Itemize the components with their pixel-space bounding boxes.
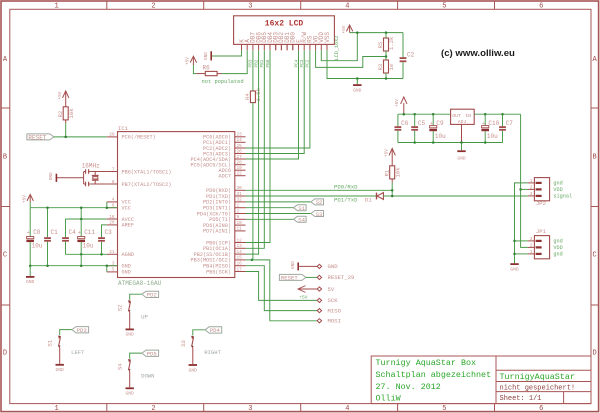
wire LCD DB5 to IC pin13 — [246, 50, 265, 248]
ground symbol JP bus — [510, 263, 518, 265]
IC1 pin 10 PD6(AIN0) — [235, 224, 246, 226]
svg-text:C3: C3 — [105, 229, 113, 236]
resistor R4 — [250, 91, 255, 103]
svg-text:12: 12 — [237, 238, 243, 243]
svg-text:16x2 LCD: 16x2 LCD — [265, 20, 304, 29]
svg-text:S1: S1 — [47, 339, 54, 346]
supply +5V arrow on regulator output — [403, 103, 405, 114]
capacitor C1 — [47, 208, 49, 238]
svg-text:PD0/RxD: PD0/RxD — [334, 184, 358, 191]
svg-text:MISO: MISO — [328, 307, 342, 314]
svg-text:C7: C7 — [506, 120, 514, 127]
wire R4 to IC pin15 node — [252, 103, 254, 260]
wire SCK from pin17 — [246, 272, 318, 301]
svg-text:PB1: PB1 — [260, 59, 265, 67]
svg-text:2: 2 — [530, 243, 533, 248]
wire R6 to LCD A — [222, 50, 248, 73]
svg-text:1: 1 — [54, 405, 58, 413]
svg-text:1: 1 — [530, 179, 533, 184]
svg-text:LEFT: LEFT — [71, 349, 85, 356]
svg-text:PD1/TxD: PD1/TxD — [334, 197, 358, 204]
svg-text:C11: C11 — [84, 229, 95, 236]
svg-text:17: 17 — [237, 267, 243, 272]
diode D1 — [376, 193, 378, 200]
switch S2 UP — [130, 294, 142, 300]
IC1 pin 19 ADC6 — [235, 169, 246, 171]
wire LCD RS to IC pin25 — [246, 50, 310, 148]
svg-text:DOWN: DOWN — [141, 372, 154, 379]
supply +5V arrow above R1 — [391, 150, 393, 157]
IC1 pin 29 PC6(/RESET) — [107, 136, 118, 138]
svg-text:R3: R3 — [377, 64, 384, 71]
supply +5V arrow above R2 — [65, 92, 67, 99]
IC1 pin 32 PD2(INT0) — [235, 201, 246, 203]
svg-text:PC3: PC3 — [300, 59, 305, 67]
svg-text:+: + — [482, 121, 485, 127]
svg-text:2: 2 — [151, 405, 155, 413]
wire LCD DB4 to IC pin12 — [246, 50, 271, 242]
resistor R6 — [196, 73, 205, 75]
wire JP1 pin1 gnd — [515, 253, 528, 255]
svg-text:VDD: VDD — [553, 245, 562, 251]
svg-text:28: 28 — [237, 161, 243, 166]
svg-text:GND: GND — [126, 391, 135, 397]
wire JP2 gnd to JP1 gnd bus — [515, 183, 528, 263]
svg-text:D: D — [3, 350, 7, 358]
stub LCD DB2 — [280, 44, 282, 50]
AREF line — [102, 224, 107, 226]
node R5/R3 junction — [385, 55, 388, 58]
svg-text:GND: GND — [49, 172, 54, 180]
svg-text:PD2: PD2 — [147, 292, 157, 299]
wire LCD VSS to GND rail — [327, 50, 357, 78]
svg-text:10u: 10u — [487, 133, 498, 140]
svg-text:C8: C8 — [33, 229, 41, 236]
svg-text:9: 9 — [237, 215, 240, 220]
svg-text:MOSI: MOSI — [328, 318, 341, 325]
svg-text:PB5(SCK): PB5(SCK) — [206, 269, 231, 275]
wire IC pin32 to S2 flag — [246, 201, 311, 203]
wire TxD to JP2 signal — [392, 195, 528, 197]
capacitor C7 — [502, 114, 504, 126]
AVCC line — [66, 218, 107, 220]
svg-text:11: 11 — [237, 227, 243, 232]
svg-text:S2: S2 — [117, 304, 124, 311]
ground symbol under divider — [356, 79, 358, 85]
svg-text:PB7(XTAL2/TOSC2): PB7(XTAL2/TOSC2) — [122, 182, 172, 188]
svg-text:18: 18 — [109, 215, 115, 220]
stub LCD DB1 — [286, 44, 288, 50]
IC1 pin 30 PD0(RXD) — [235, 189, 246, 191]
svg-text:gnd: gnd — [553, 181, 562, 187]
IC1 pin 24 PC1(ADC1) — [235, 141, 246, 143]
svg-text:PD7(AIN1): PD7(AIN1) — [203, 229, 231, 235]
svg-text:PC4: PC4 — [294, 59, 299, 67]
svg-text:1: 1 — [530, 250, 533, 255]
IC1 pin 3 GND — [107, 265, 118, 267]
svg-text:14: 14 — [237, 250, 243, 255]
svg-text:GND: GND — [26, 279, 35, 285]
wire RESET flag to IC pin29 — [54, 136, 107, 138]
IC U1 ATMEGA8 body — [118, 132, 235, 278]
svg-text:JP2: JP2 — [536, 200, 546, 207]
wire LCD E to IC pin27 — [246, 50, 299, 159]
svg-text:signal: signal — [553, 194, 572, 200]
switch S4 DOWN — [130, 353, 142, 359]
svg-text:10: 10 — [237, 221, 243, 226]
svg-text:+5V: +5V — [395, 99, 400, 107]
resistor R5 — [385, 33, 387, 38]
GND rail under divider — [327, 78, 403, 80]
wire RxD TxD tie — [391, 190, 393, 196]
resistor R2 — [65, 99, 67, 107]
svg-text:26: 26 — [237, 149, 243, 154]
svg-text:D: D — [592, 350, 596, 358]
svg-text:S4: S4 — [117, 363, 124, 370]
IC1 pin 31 PD1(TXD) — [235, 195, 246, 197]
supply +5V arrow left bank — [29, 196, 31, 203]
wire MISO from pin16 — [246, 266, 318, 311]
svg-text:3: 3 — [248, 405, 252, 413]
svg-text:AREF: AREF — [122, 223, 134, 229]
svg-text:GND: GND — [122, 264, 131, 270]
svg-text:R2: R2 — [57, 111, 64, 118]
svg-text:D1: D1 — [365, 197, 372, 204]
svg-text:S3: S3 — [180, 340, 187, 347]
stub LCD DB3 — [275, 44, 277, 50]
svg-text:RESET_29: RESET_29 — [328, 274, 355, 281]
svg-text:gnd: gnd — [553, 239, 562, 245]
svg-text:PD3: PD3 — [77, 327, 87, 334]
resonator centre tap to ground — [56, 177, 83, 179]
svg-text:6: 6 — [539, 3, 543, 11]
+5V rail to VCC pins — [29, 202, 31, 208]
capacitor C8 polarized — [29, 208, 31, 237]
svg-text:10k: 10k — [394, 167, 401, 178]
svg-text:GND: GND — [56, 367, 65, 373]
svg-text:ADJ: ADJ — [458, 119, 467, 125]
svg-text:+5V: +5V — [58, 91, 63, 99]
svg-text:19: 19 — [237, 166, 243, 171]
svg-text:25: 25 — [237, 144, 243, 149]
svg-text:C9: C9 — [436, 120, 444, 127]
IC1 pin 21 AGND — [107, 253, 118, 255]
+5V rail to C2 — [350, 32, 403, 34]
connector JP1 — [534, 236, 549, 259]
title block outline — [371, 356, 591, 404]
ISP pad SCK — [317, 298, 321, 302]
IC1 pin 7 PB6(XTAL1/TOSC1) — [107, 171, 118, 173]
svg-text:C10: C10 — [488, 120, 499, 127]
svg-text:GND: GND — [328, 263, 339, 270]
frame column ticks — [106, 1, 108, 9]
svg-text:OlliW: OlliW — [376, 394, 402, 404]
IC1 pin 27 PC4(ADC4/SDA) — [235, 158, 246, 160]
IC1 pin 22 ADC7 — [235, 175, 246, 177]
svg-text:32: 32 — [237, 198, 243, 203]
svg-text:31: 31 — [237, 192, 243, 197]
svg-text:R6: R6 — [203, 64, 211, 71]
regulator bottom rail — [398, 142, 503, 144]
ISP pad 5V with supply arrow — [298, 286, 306, 293]
svg-text:5: 5 — [442, 3, 446, 11]
ISP pad GND — [297, 262, 299, 270]
svg-text:GND: GND — [353, 88, 362, 94]
svg-text:not populated: not populated — [202, 79, 244, 85]
svg-text:VDD: VDD — [553, 187, 562, 193]
svg-text:GND: GND — [126, 332, 135, 338]
frame row ticks — [1, 107, 10, 109]
svg-text:6: 6 — [539, 405, 543, 413]
IC1 pin 12 PB0(ICP) — [235, 242, 246, 244]
svg-text:IC1: IC1 — [118, 125, 129, 132]
IC1 pin 26 PC3(ADC3) — [235, 153, 246, 155]
svg-text:RESET: RESET — [281, 275, 298, 282]
svg-text:B: B — [3, 154, 7, 162]
wire C11 AGND to GND rail — [80, 254, 82, 265]
svg-text:S3: S3 — [316, 211, 323, 218]
svg-text:5V: 5V — [328, 286, 335, 293]
svg-text:PB2: PB2 — [254, 59, 259, 67]
wire IC pin30 RxD — [246, 189, 393, 191]
svg-text:RIGHT: RIGHT — [204, 349, 221, 356]
svg-text:+5V: +5V — [299, 295, 308, 301]
capacitor C2 — [402, 33, 404, 58]
svg-text:10u: 10u — [83, 243, 94, 250]
GND rail — [30, 265, 117, 267]
IC1 pin 17 PB5(SCK) — [235, 271, 246, 273]
svg-text:R5: R5 — [377, 42, 384, 49]
svg-text:Turnigy AquaStar Box: Turnigy AquaStar Box — [376, 358, 477, 368]
svg-text:10u: 10u — [435, 133, 446, 140]
svg-text:10u: 10u — [32, 243, 43, 250]
wire R1 to RxD — [391, 183, 393, 191]
IC1 pin 9 PD5(T1) — [235, 218, 246, 220]
wire JP2 VDD junction — [520, 188, 528, 190]
svg-text:21: 21 — [109, 250, 115, 255]
wire +5V to R6 — [193, 65, 196, 73]
svg-text:C5: C5 — [418, 120, 426, 127]
regulator IC2 — [451, 109, 475, 124]
svg-text:UP: UP — [141, 314, 148, 321]
svg-text:1.2k: 1.2k — [388, 36, 395, 50]
svg-text:10k: 10k — [68, 108, 75, 119]
svg-text:+: + — [78, 230, 81, 236]
IC1 pin 8 PB7(XTAL2/TOSC2) — [107, 183, 118, 185]
svg-text:1e: 1e — [388, 64, 395, 71]
ground symbol left bank — [29, 266, 31, 276]
capacitor C10 polarized — [484, 114, 486, 125]
svg-text:2: 2 — [151, 3, 155, 11]
svg-text:20: 20 — [109, 221, 115, 226]
svg-text:3: 3 — [530, 237, 533, 242]
IC1 pin 5 GND — [107, 271, 118, 273]
capacitor C4 — [65, 219, 67, 237]
svg-text:PD5: PD5 — [147, 351, 157, 358]
svg-text:15: 15 — [237, 256, 243, 261]
svg-text:GND: GND — [204, 52, 209, 60]
resistor R3 — [385, 57, 387, 61]
svg-text:4: 4 — [345, 3, 349, 11]
capacitor C9 polarized — [432, 114, 434, 125]
regulator ground pin — [461, 124, 463, 142]
IC1 pin 20 AREF — [107, 224, 118, 226]
svg-text:2: 2 — [237, 209, 240, 214]
net flag S1 — [294, 205, 307, 211]
svg-text:22: 22 — [237, 172, 243, 177]
svg-text:29: 29 — [109, 133, 115, 138]
svg-text:+: + — [430, 121, 433, 127]
svg-text:1: 1 — [54, 3, 58, 11]
wire IC pin9 to S4 flag — [246, 218, 294, 220]
svg-text:S1: S1 — [298, 205, 305, 212]
IC1 pin 14 PB2(SS/OC1B) — [235, 253, 246, 255]
wire regulator input from JP connectors — [521, 114, 528, 247]
IC1 pin 16 PB4(MISO) — [235, 265, 246, 267]
svg-text:1: 1 — [237, 204, 240, 209]
IC1 pin 25 PC2(ADC2) — [235, 147, 246, 149]
svg-text:27. Nov. 2012: 27. Nov. 2012 — [376, 382, 441, 392]
svg-text:+5V: +5V — [384, 149, 389, 157]
AGND line — [66, 253, 107, 255]
svg-text:S2: S2 — [316, 199, 323, 206]
IC1 pin 11 PD7(AIN1) — [235, 230, 246, 232]
svg-text:PB6(XTAL1/TOSC1): PB6(XTAL1/TOSC1) — [122, 169, 172, 175]
switch S1 LEFT — [60, 330, 72, 336]
svg-text:LCD_16X2: LCD_16X2 — [334, 36, 340, 61]
supply +5V arrow near R6 — [192, 57, 194, 65]
IC1 pin 6 VCC — [107, 207, 118, 209]
svg-text:+5V: +5V — [22, 195, 27, 203]
wire VCC pin4 drop — [106, 202, 108, 208]
IC1 pin 28 PC5(ADC5/SCL) — [235, 164, 246, 166]
svg-text:RESET: RESET — [28, 134, 46, 141]
svg-text:5: 5 — [112, 268, 115, 273]
svg-text:SCK: SCK — [328, 297, 339, 304]
IC1 pin 2 PD4(XCK/T0) — [235, 213, 246, 215]
svg-text:16MHz: 16MHz — [82, 163, 100, 170]
wire LCD VO to contrast divider — [316, 50, 386, 67]
wire IC pin31 TxD to diode — [246, 195, 377, 197]
net flag RESET — [27, 134, 54, 140]
svg-text:PD4: PD4 — [210, 327, 221, 334]
svg-text:3: 3 — [530, 192, 533, 197]
+5V output rail — [398, 113, 451, 115]
svg-text:C: C — [3, 252, 7, 260]
svg-text:7: 7 — [112, 167, 115, 172]
svg-text:GND: GND — [291, 261, 296, 269]
net flag S4 — [294, 216, 307, 222]
ISP pad MOSI — [317, 319, 321, 323]
svg-text:+5V: +5V — [186, 57, 191, 65]
connector JP2 — [534, 178, 549, 201]
svg-text:ADC7: ADC7 — [219, 174, 231, 180]
svg-text:PC2: PC2 — [306, 59, 311, 67]
resistor R1 — [391, 157, 393, 166]
svg-text:nicht gespeichert!: nicht gespeichert! — [500, 385, 576, 393]
svg-text:B: B — [592, 154, 596, 162]
svg-text:23: 23 — [237, 133, 243, 138]
svg-text:C6: C6 — [401, 120, 409, 127]
wire IC pin2 to S3 flag — [246, 213, 311, 215]
svg-text:AGND: AGND — [122, 252, 134, 258]
svg-text:27: 27 — [237, 155, 243, 160]
svg-text:Sheet: 1/1: Sheet: 1/1 — [500, 395, 542, 403]
IC1 pin 23 PC0(ADC0) — [235, 136, 246, 138]
capacitor C11 polarized — [80, 208, 82, 237]
IC1 pin 4 VCC — [107, 201, 118, 203]
svg-text:R4: R4 — [244, 93, 251, 100]
svg-text:PB3: PB3 — [249, 59, 254, 67]
IC1 pin 1 PD3(INT1) — [235, 207, 246, 209]
wire GND pin5 branch — [106, 266, 108, 272]
svg-text:Schaltplan abgezeichnet: Schaltplan abgezeichnet — [376, 370, 492, 380]
supply +5V arrow at contrast divider — [349, 26, 351, 33]
wire LCD DB7 to R4 — [252, 50, 254, 91]
connector 16x2 LCD — [234, 16, 335, 45]
svg-text:24: 24 — [237, 138, 243, 143]
svg-text:13: 13 — [237, 244, 243, 249]
wire diode to junction — [383, 195, 392, 197]
ground symbol regulator — [461, 143, 463, 151]
svg-text:C2: C2 — [407, 52, 415, 59]
svg-text:R1: R1 — [383, 169, 390, 176]
svg-text:PC6(/RESET): PC6(/RESET) — [122, 135, 156, 141]
svg-text:5: 5 — [442, 405, 446, 413]
svg-text:PB0: PB0 — [266, 59, 271, 67]
wire LCD VDD to +5V rail — [321, 33, 357, 61]
svg-text:(c) www.olliw.eu: (c) www.olliw.eu — [441, 48, 515, 59]
svg-text:C1: C1 — [51, 229, 59, 236]
stub LCD DB0 — [292, 44, 294, 50]
wire IC pin1 to S1 flag — [246, 207, 294, 209]
svg-text:TurnigyAquaStar: TurnigyAquaStar — [500, 372, 575, 382]
svg-text:2: 2 — [530, 185, 533, 190]
wire MOSI from pin15 node — [251, 259, 254, 262]
svg-text:VCC: VCC — [122, 206, 131, 212]
svg-text:+5V: +5V — [342, 25, 347, 33]
ground symbol at LCD — [210, 51, 212, 60]
svg-text:30: 30 — [237, 186, 243, 191]
svg-text:gnd: gnd — [553, 252, 562, 258]
svg-text:16: 16 — [237, 262, 243, 267]
wire LCD R/W to IC pin26 — [246, 50, 305, 153]
net flag S3 — [311, 211, 324, 217]
capacitor C5 — [414, 114, 416, 126]
wire LCD K to GND — [212, 50, 242, 56]
svg-text:VSS: VSS — [324, 32, 331, 43]
ISP pad MISO — [317, 309, 321, 313]
net flag S2 — [311, 199, 324, 205]
IC1 pin 18 AVCC — [107, 218, 118, 220]
svg-text:4: 4 — [345, 405, 349, 413]
switch S3 RIGHT — [193, 330, 205, 336]
svg-text:ATMEGA8-16AU: ATMEGA8-16AU — [118, 280, 162, 287]
IC1 pin 15 PB3(MOSI/OC2) — [235, 259, 246, 261]
svg-text:C: C — [592, 252, 596, 260]
svg-text:4: 4 — [112, 198, 115, 203]
wire LCD DB6 to IC pin14 — [246, 50, 259, 254]
svg-text:3: 3 — [248, 3, 252, 11]
svg-text:8: 8 — [112, 180, 115, 185]
svg-text:C4: C4 — [69, 229, 77, 236]
svg-text:GND: GND — [122, 270, 131, 276]
svg-text:GND: GND — [510, 267, 519, 273]
svg-text:GND: GND — [189, 367, 198, 373]
capacitor C6 — [397, 114, 399, 126]
svg-text:IN: IN — [465, 113, 471, 119]
regulator input rail — [474, 113, 520, 115]
